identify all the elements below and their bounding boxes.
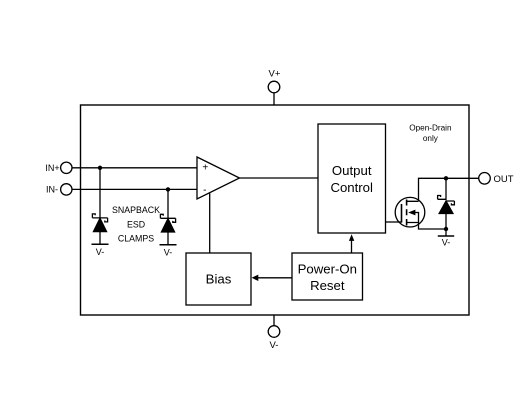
block Bias <box>186 253 251 305</box>
ground rail V- of D2 <box>160 245 177 258</box>
wire IN+ to comparator <box>72 167 197 169</box>
svg-text:V-: V- <box>96 247 105 257</box>
wire comparator to Bias <box>209 193 211 253</box>
svg-text:V-: V- <box>164 247 173 257</box>
wire comparator output to Output Control <box>240 177 319 179</box>
svg-text:Open-Drain: Open-Drain <box>409 123 452 132</box>
svg-text:V-: V- <box>442 237 451 247</box>
comparator U1 <box>197 157 240 199</box>
svg-text:only: only <box>423 134 439 143</box>
snapback diode D2 (right ESD clamp) <box>160 214 175 244</box>
wire IN- to comparator <box>72 188 197 190</box>
block Power-On Reset <box>292 253 363 300</box>
svg-text:Bias: Bias <box>206 272 232 287</box>
svg-text:Reset: Reset <box>310 278 345 293</box>
pin IN- <box>46 184 72 195</box>
svg-text:-: - <box>203 185 206 196</box>
svg-text:ESD: ESD <box>127 220 145 230</box>
pin V+ <box>268 68 281 105</box>
svg-text:CLAMPS: CLAMPS <box>118 234 154 244</box>
arrow Power-On Reset to Output Control <box>349 234 354 253</box>
pin IN+ <box>45 162 72 173</box>
wire gate from Output Control <box>386 221 402 223</box>
node source/clamp <box>444 227 448 231</box>
label Open-Drain only <box>409 123 452 143</box>
ground rail V- of D3 <box>438 236 454 247</box>
svg-text:IN+: IN+ <box>45 163 59 173</box>
ground rail V- of D1 <box>92 244 109 257</box>
wire IN+ node down to clamp D1 <box>99 168 101 218</box>
svg-text:V-: V- <box>270 340 279 351</box>
svg-text:+: + <box>202 162 208 173</box>
wire IN- node down to clamp D2 <box>167 189 169 218</box>
block Output Control <box>318 124 386 233</box>
transistor Q1 (open-drain NMOS) <box>395 197 425 227</box>
node on IN+ wire <box>98 166 102 170</box>
svg-text:SNAPBACK: SNAPBACK <box>112 205 160 215</box>
arrow Power-On Reset to Bias <box>252 275 292 281</box>
wire output node down to clamp D3 <box>445 178 447 200</box>
wire source to V- node <box>419 223 447 230</box>
svg-text:Output: Output <box>332 163 372 178</box>
wire drain up to output node <box>419 178 479 201</box>
svg-text:Power-On: Power-On <box>298 262 357 277</box>
snapback diode D3 (output clamp) <box>438 196 455 237</box>
pin V- (bottom) <box>268 315 280 351</box>
pin OUT <box>479 173 514 185</box>
label SNAPBACK ESD CLAMPS <box>112 205 160 243</box>
snapback diode D1 (left ESD clamp) <box>92 214 107 244</box>
svg-text:V+: V+ <box>269 68 281 79</box>
svg-text:Control: Control <box>330 180 373 195</box>
node on IN- wire <box>166 187 170 191</box>
IC boundary box <box>81 105 470 315</box>
node drain/output <box>444 176 448 180</box>
svg-text:OUT: OUT <box>494 174 514 185</box>
svg-text:IN-: IN- <box>46 185 58 195</box>
